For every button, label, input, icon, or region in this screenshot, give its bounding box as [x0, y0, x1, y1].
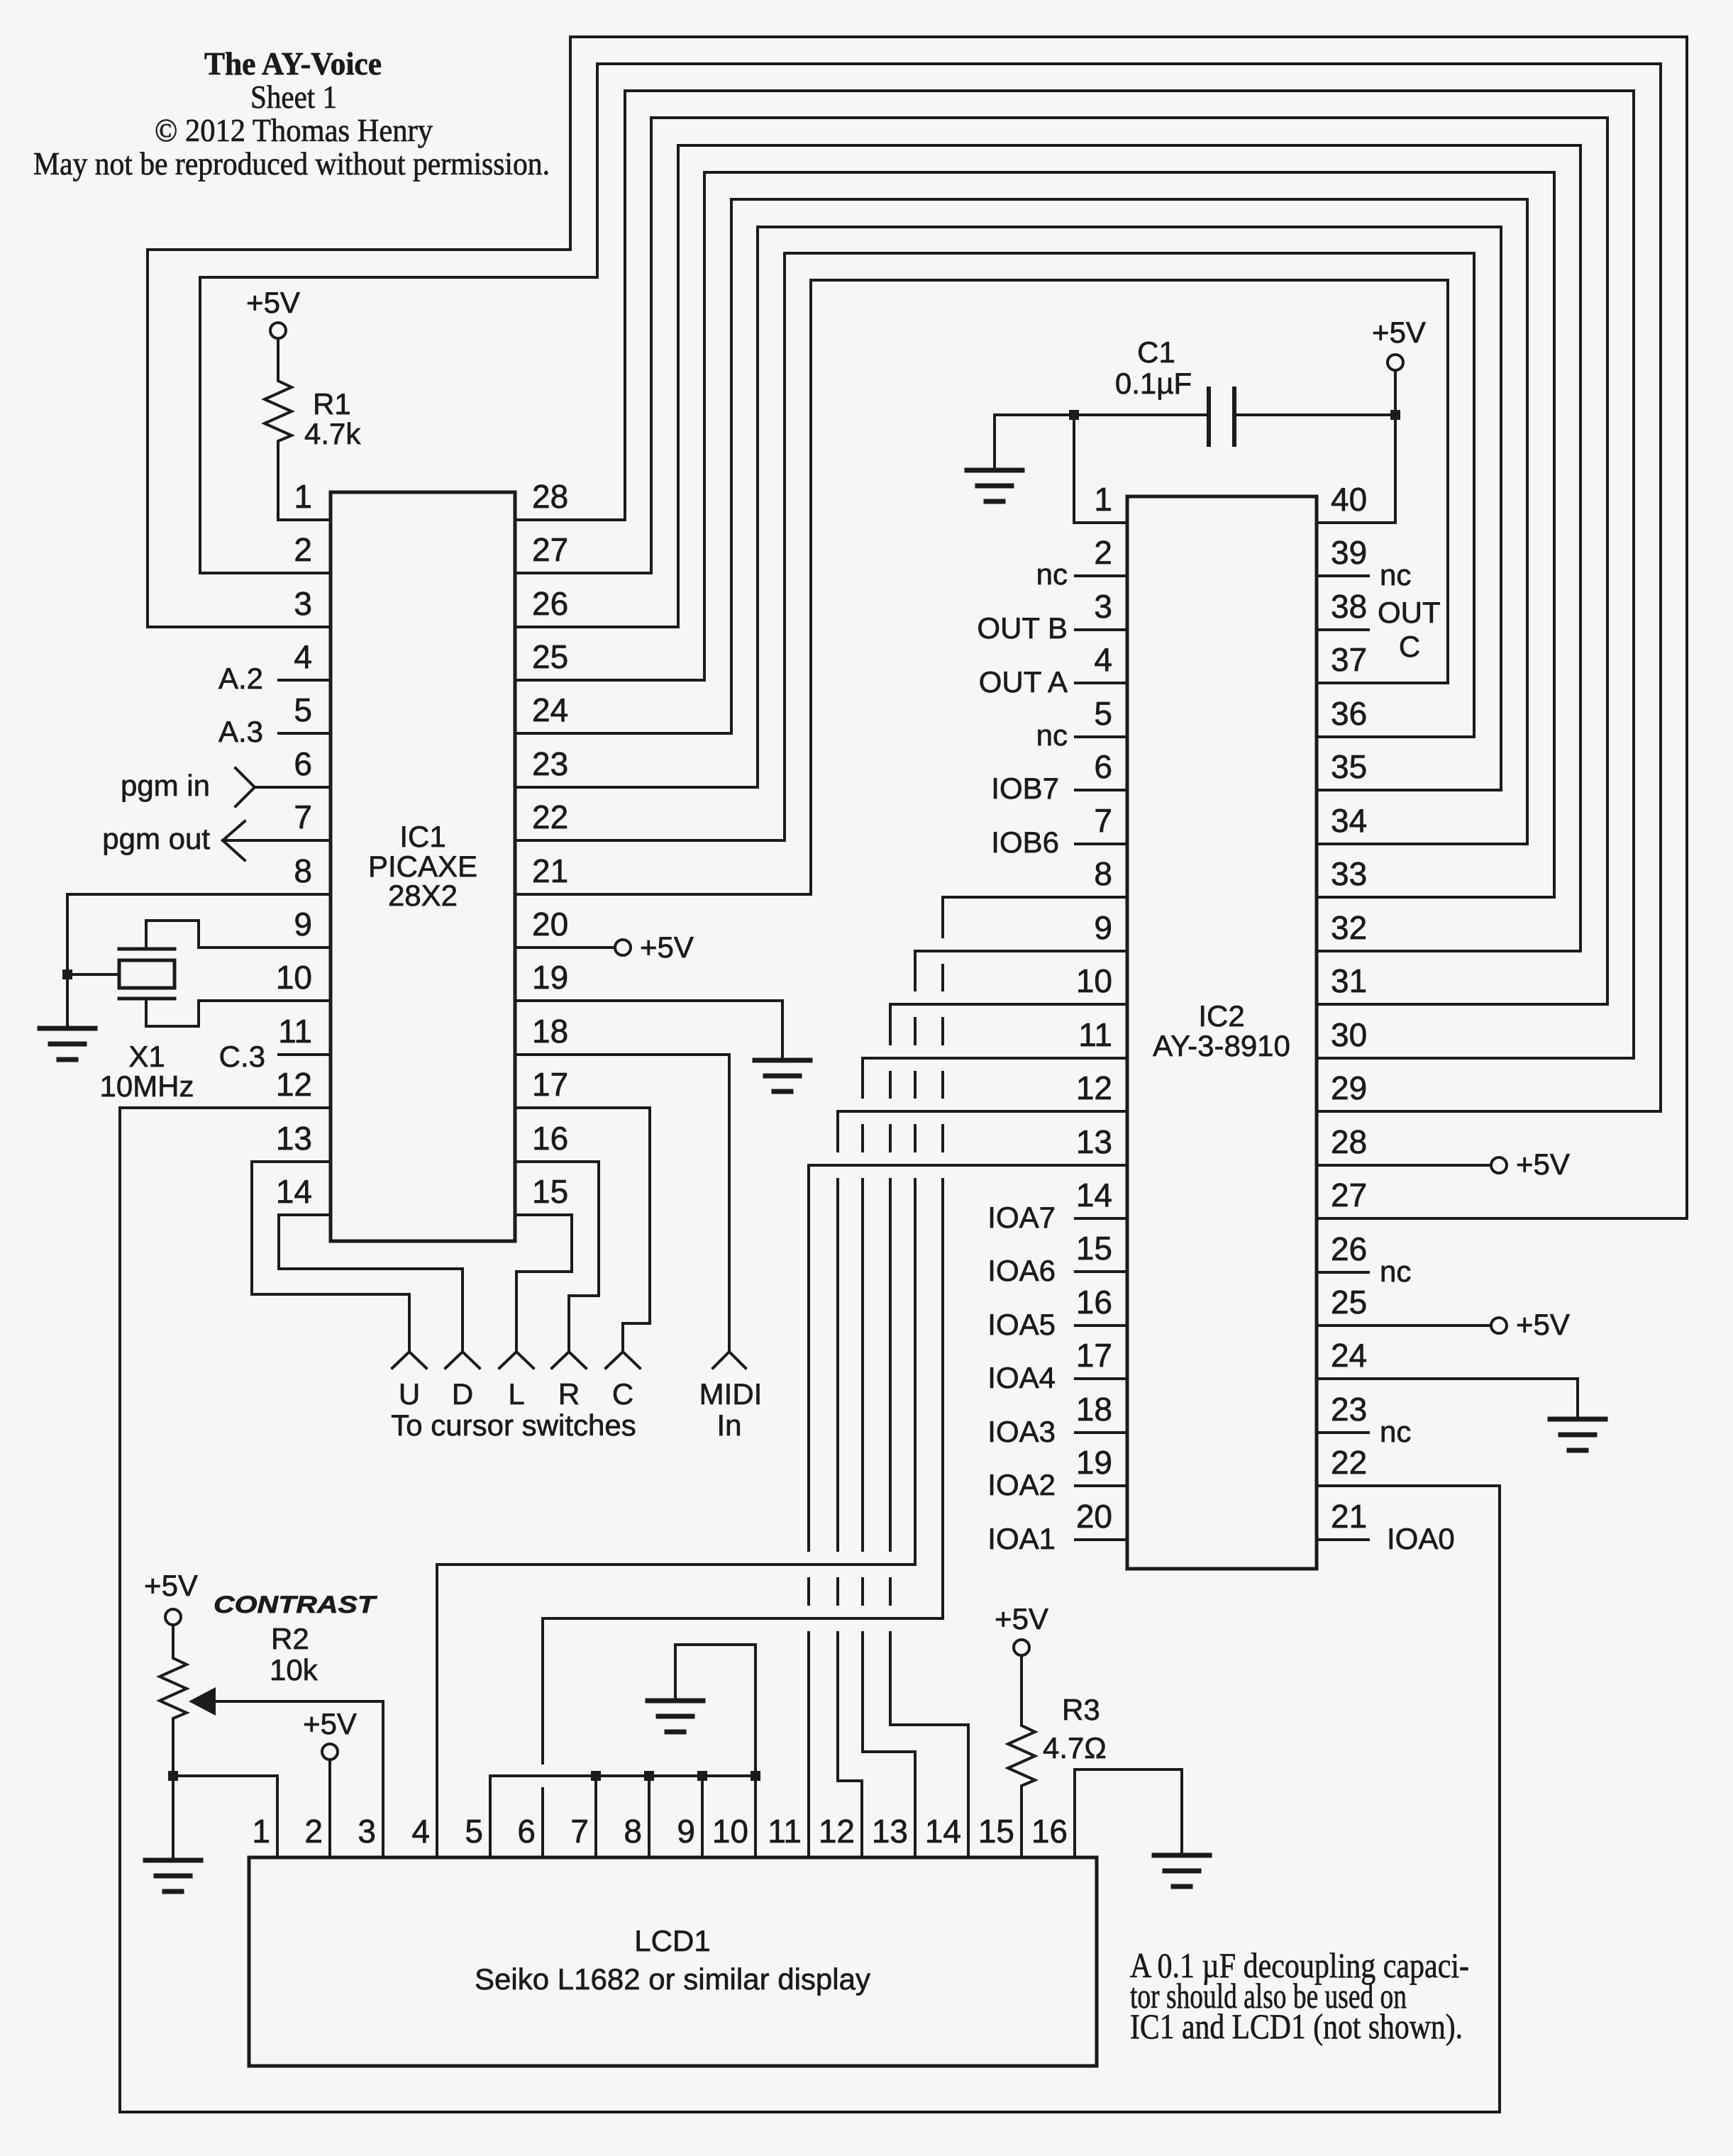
wire bus IC1 pin28 to IC2 pin30	[515, 91, 1634, 1058]
svg-text:8: 8	[624, 1813, 642, 1850]
svg-text:10MHz: 10MHz	[99, 1069, 194, 1103]
svg-text:11: 11	[278, 1013, 312, 1050]
resistor R3 4.7ohm	[1014, 1640, 1029, 1655]
junction R2 bottom node	[168, 1771, 178, 1781]
svg-text:25: 25	[1331, 1284, 1367, 1321]
svg-text:28X2: 28X2	[388, 879, 458, 912]
wire bus IC1 pin3 to IC2 pin27	[148, 37, 1687, 1218]
wire X1 top plate to IC1 pin9	[146, 921, 331, 949]
svg-text:A.2: A.2	[218, 662, 263, 695]
svg-text:A.3: A.3	[218, 715, 263, 748]
svg-text:2: 2	[294, 531, 312, 568]
svg-text:OUT B: OUT B	[977, 611, 1068, 645]
IC2 pin15 stub IOA6	[1075, 1270, 1127, 1273]
IC2 pin7 stub IOB6	[1075, 843, 1127, 845]
wire R2 node to LCD pin1	[173, 1776, 277, 1857]
svg-text:40: 40	[1331, 481, 1367, 518]
IC2 pin6 stub IOB7	[1075, 789, 1127, 791]
svg-text:31: 31	[1331, 962, 1367, 999]
svg-text:7: 7	[570, 1813, 589, 1850]
wire bus IC1 pin27 to IC2 pin31	[515, 118, 1607, 1004]
ground above LCD	[648, 1701, 703, 1732]
svg-text:R2: R2	[271, 1622, 309, 1655]
LCD pins 5-10 ground rail	[490, 1774, 755, 1777]
wire IC2 pin10 to LCD pin14	[890, 1004, 1127, 1044]
svg-text:27: 27	[1331, 1177, 1367, 1213]
junction C1 right node	[1390, 410, 1400, 420]
svg-text:3: 3	[294, 585, 312, 622]
IC2 pin5 stub nc	[1075, 735, 1127, 738]
svg-text:R3: R3	[1062, 1693, 1100, 1726]
wire bus IC1 pin22 to IC2 pin36	[515, 253, 1474, 840]
svg-text:35: 35	[1331, 748, 1367, 785]
IC2 pin4 stub OUT A	[1075, 682, 1127, 684]
wire IC1 pin19 to ground	[515, 1001, 782, 1058]
svg-text:R: R	[558, 1377, 580, 1411]
svg-text:1: 1	[1094, 481, 1112, 518]
IC2 pin20 stub IOA1	[1075, 1538, 1127, 1541]
svg-text:4: 4	[411, 1813, 430, 1850]
wire bus IC1 pin24 to IC2 pin34	[515, 199, 1527, 844]
svg-text:0.1µF: 0.1µF	[1115, 367, 1192, 400]
IC1 pin4 stub A.2	[279, 679, 331, 682]
IC2 pin18 stub IOA3	[1075, 1431, 1127, 1434]
svg-text:24: 24	[1331, 1337, 1367, 1374]
IC2 pin26 stub nc	[1317, 1271, 1368, 1274]
svg-text:10: 10	[712, 1813, 748, 1850]
wire rail to ground	[675, 1645, 755, 1776]
wire X1 bottom plate to IC1 pin10	[146, 999, 331, 1026]
svg-text:16: 16	[532, 1120, 568, 1157]
svg-text:34: 34	[1331, 802, 1367, 839]
ground at IC1 pin8	[40, 1028, 95, 1060]
svg-text:+5V: +5V	[303, 1707, 357, 1740]
svg-text:22: 22	[1331, 1444, 1367, 1481]
R2 wiper arrow	[189, 1687, 216, 1716]
svg-text:32: 32	[1331, 909, 1367, 946]
svg-text:+5V: +5V	[144, 1569, 198, 1602]
svg-text:nc: nc	[1380, 558, 1411, 591]
svg-text:11: 11	[768, 1813, 802, 1850]
connector arrow C	[606, 1352, 640, 1368]
svg-text:16: 16	[1076, 1284, 1112, 1321]
svg-text:36: 36	[1331, 695, 1367, 732]
svg-text:6: 6	[517, 1813, 536, 1850]
IC2 pin2 stub nc	[1075, 574, 1127, 577]
svg-text:+5V: +5V	[995, 1602, 1048, 1635]
svg-text:9: 9	[677, 1813, 695, 1850]
svg-text:C.3: C.3	[219, 1040, 265, 1073]
wire IC1 pin16 to cursor R	[515, 1162, 599, 1352]
svg-text:+5V: +5V	[1372, 316, 1426, 349]
IC2 pin24 wire to ground	[1317, 1379, 1578, 1417]
svg-text:28: 28	[1331, 1123, 1367, 1160]
wire +5V to IC2 pin40	[1317, 370, 1395, 523]
wire IC2 pin8 to LCD pin6	[943, 897, 1127, 937]
svg-text:Sheet 1: Sheet 1	[250, 79, 337, 115]
svg-text:R1: R1	[313, 387, 351, 421]
svg-text:IOA3: IOA3	[987, 1415, 1056, 1448]
svg-text:D: D	[452, 1377, 473, 1411]
svg-text:In: In	[716, 1408, 741, 1442]
svg-text:L: L	[508, 1377, 524, 1411]
svg-text:37: 37	[1331, 641, 1367, 678]
svg-text:pgm in: pgm in	[121, 769, 210, 802]
svg-text:8: 8	[1094, 855, 1112, 892]
wire bus IC1 pin25 to IC2 pin33	[515, 172, 1554, 897]
svg-text:IOA6: IOA6	[987, 1254, 1056, 1287]
svg-text:C1: C1	[1137, 335, 1175, 369]
svg-text:18: 18	[1076, 1391, 1112, 1428]
svg-text:nc: nc	[1380, 1415, 1411, 1448]
svg-text:1: 1	[294, 478, 312, 515]
junction X1 left node	[62, 969, 72, 979]
svg-text:IOA1: IOA1	[987, 1522, 1056, 1555]
junction dots on rail pins 7-10	[591, 1771, 601, 1781]
svg-text:nc: nc	[1036, 718, 1068, 752]
connector arrow MIDI In	[713, 1352, 746, 1368]
IC1 pin6 stub pgm in arrow	[236, 768, 255, 806]
wire IC1 pin13 to cursor U	[252, 1162, 409, 1352]
svg-text:nc: nc	[1380, 1255, 1411, 1288]
svg-text:MIDI: MIDI	[699, 1377, 763, 1411]
svg-text:14: 14	[1076, 1177, 1112, 1213]
wire IC1 pin15 to cursor L	[515, 1215, 572, 1352]
wire C1 left node to IC2 pin1	[1074, 415, 1127, 523]
ground at IC1 pin19	[755, 1060, 810, 1091]
IC1 U1 PICAXE 28X2 box	[331, 492, 515, 1241]
svg-text:10: 10	[276, 959, 312, 996]
svg-text:5: 5	[1094, 695, 1112, 732]
resistor R1 4.7k	[270, 323, 286, 338]
svg-text:12: 12	[819, 1813, 855, 1850]
svg-text:21: 21	[1331, 1498, 1367, 1535]
svg-text:© 2012 Thomas Henry: © 2012 Thomas Henry	[155, 113, 433, 148]
svg-text:IC1 and LCD1 (not shown).: IC1 and LCD1 (not shown).	[1130, 2006, 1463, 2046]
svg-text:16: 16	[1031, 1813, 1068, 1850]
+5V at LCD pin2	[322, 1744, 338, 1760]
wire IC1 pin18 to MIDI In	[515, 1055, 729, 1352]
svg-text:14: 14	[925, 1813, 961, 1850]
svg-text:2: 2	[1094, 534, 1112, 571]
svg-text:28: 28	[532, 478, 568, 515]
wire IC2 pin9 to LCD pin4	[915, 951, 1127, 990]
svg-text:20: 20	[1076, 1498, 1112, 1535]
ground at C1	[993, 415, 996, 468]
svg-text:18: 18	[532, 1013, 568, 1050]
svg-text:13: 13	[276, 1120, 312, 1157]
svg-text:30: 30	[1331, 1016, 1367, 1053]
svg-text:38: 38	[1331, 588, 1367, 625]
svg-text:15: 15	[1076, 1230, 1112, 1267]
svg-text:+5V: +5V	[1516, 1148, 1570, 1181]
svg-text:4.7k: 4.7k	[304, 417, 361, 450]
svg-text:9: 9	[294, 906, 312, 943]
svg-text:11: 11	[1078, 1016, 1112, 1053]
LCD1 box	[249, 1857, 1097, 2066]
ground at R2	[145, 1860, 201, 1891]
wire IC2 pin12 to LCD pin12	[838, 1111, 1127, 1151]
svg-text:8: 8	[294, 852, 312, 889]
IC2 pin38 stub OUT C	[1317, 628, 1368, 631]
svg-text:U: U	[399, 1377, 420, 1411]
svg-text:33: 33	[1331, 855, 1367, 892]
connector arrow U	[392, 1352, 426, 1368]
svg-text:7: 7	[1094, 802, 1112, 839]
svg-text:AY-3-8910: AY-3-8910	[1153, 1029, 1290, 1062]
IC1 pin20 wire to +5V	[515, 946, 614, 949]
svg-text:39: 39	[1331, 534, 1367, 571]
svg-text:20: 20	[532, 906, 568, 943]
wire IC1 pin12 to IC2 pin22 (around page bottom)	[120, 1108, 1500, 2112]
junction C1 left node	[1069, 410, 1079, 420]
connector arrow L	[499, 1352, 533, 1368]
svg-text:IOA7: IOA7	[987, 1201, 1056, 1234]
svg-text:CONTRAST: CONTRAST	[214, 1591, 378, 1618]
svg-text:12: 12	[276, 1066, 312, 1103]
ground at LCD pin16	[1154, 1855, 1209, 1886]
svg-text:C: C	[1399, 630, 1420, 663]
svg-text:12: 12	[1076, 1069, 1112, 1106]
capacitor C1 0.1uF	[995, 413, 1209, 416]
svg-text:9: 9	[1094, 909, 1112, 946]
svg-text:19: 19	[1076, 1444, 1112, 1481]
svg-text:17: 17	[532, 1066, 568, 1103]
wire IC1 pin17 to cursor C	[515, 1108, 650, 1352]
potentiometer R2 10k CONTRAST	[165, 1609, 181, 1625]
svg-text:nc: nc	[1036, 557, 1068, 591]
svg-text:2: 2	[304, 1813, 323, 1850]
svg-text:To cursor switches: To cursor switches	[391, 1408, 636, 1442]
svg-text:C: C	[612, 1377, 633, 1411]
+5V at C1 right node	[1388, 355, 1403, 370]
svg-text:IC1: IC1	[399, 820, 445, 853]
svg-text:22: 22	[532, 799, 568, 835]
wire bus IC1 pin26 to IC2 pin32	[515, 145, 1580, 951]
svg-text:7: 7	[294, 799, 312, 835]
svg-text:IOA5: IOA5	[987, 1308, 1056, 1341]
IC2 pin3 stub OUT B	[1075, 628, 1127, 631]
svg-text:4: 4	[1094, 641, 1112, 678]
wire IC1 pin14 to cursor D	[279, 1215, 463, 1352]
IC2 pin39 stub nc	[1317, 574, 1368, 577]
svg-text:IOA2: IOA2	[987, 1468, 1056, 1501]
svg-text:3: 3	[1094, 588, 1112, 625]
IC2 pin23 stub nc	[1317, 1431, 1368, 1434]
svg-text:4.7Ω: 4.7Ω	[1043, 1731, 1107, 1765]
wire bus IC1 pin2 to IC2 pin29	[200, 64, 1661, 1111]
svg-text:25: 25	[532, 638, 568, 675]
connector arrow D	[445, 1352, 480, 1368]
IC1 pin11 stub C.3	[279, 1053, 331, 1056]
IC1 pin5 stub A.3	[279, 732, 331, 735]
svg-text:IOB7: IOB7	[991, 772, 1059, 805]
svg-text:PICAXE: PICAXE	[368, 850, 477, 883]
svg-text:LCD1: LCD1	[634, 1924, 710, 1957]
svg-text:29: 29	[1331, 1069, 1367, 1106]
IC2 pin28 wire to +5V	[1317, 1164, 1490, 1167]
svg-text:26: 26	[1331, 1230, 1367, 1267]
IC1 pin8 wire to ground	[67, 894, 331, 1026]
svg-text:5: 5	[294, 691, 312, 728]
svg-text:4: 4	[294, 638, 312, 675]
svg-text:6: 6	[1094, 748, 1112, 785]
svg-text:+5V: +5V	[1516, 1308, 1570, 1341]
wire bus IC1 pin23 to IC2 pin35	[515, 227, 1501, 790]
wire IC2 pin13 to LCD pin11	[809, 1165, 1127, 1550]
svg-text:IOA0: IOA0	[1387, 1522, 1455, 1555]
svg-text:5: 5	[465, 1813, 483, 1850]
IC1 pin7 stub pgm out arrow	[223, 821, 245, 860]
svg-text:10k: 10k	[270, 1653, 319, 1687]
svg-text:27: 27	[532, 531, 568, 568]
svg-text:10: 10	[1076, 962, 1112, 999]
svg-text:19: 19	[532, 959, 568, 996]
IC2 pin17 stub IOA4	[1075, 1377, 1127, 1380]
svg-text:IOA4: IOA4	[987, 1361, 1056, 1394]
connector arrow R	[552, 1352, 586, 1368]
IC2 pin25 wire to +5V	[1317, 1324, 1490, 1327]
svg-text:IOB6: IOB6	[991, 826, 1059, 859]
svg-text:The AY-Voice: The AY-Voice	[204, 45, 382, 82]
svg-text:17: 17	[1076, 1337, 1112, 1374]
svg-text:24: 24	[532, 691, 568, 728]
svg-text:14: 14	[276, 1173, 312, 1210]
svg-text:13: 13	[872, 1813, 908, 1850]
IC2 pin14 stub IOA7	[1075, 1217, 1127, 1220]
svg-text:+5V: +5V	[246, 286, 300, 319]
IC2 pin21 stub IOA0	[1317, 1538, 1368, 1541]
svg-text:13: 13	[1076, 1123, 1112, 1160]
svg-text:15: 15	[978, 1813, 1014, 1850]
svg-text:IC2: IC2	[1198, 999, 1244, 1033]
wire bus IC1 pin21 to IC2 pin37	[515, 280, 1448, 894]
svg-text:pgm out: pgm out	[102, 822, 210, 855]
svg-text:X1: X1	[128, 1040, 165, 1073]
svg-text:26: 26	[532, 585, 568, 622]
svg-text:23: 23	[1331, 1391, 1367, 1428]
IC2 pin19 stub IOA2	[1075, 1484, 1127, 1487]
svg-text:21: 21	[532, 852, 568, 889]
crystal X1 10MHz	[67, 973, 119, 976]
svg-text:1: 1	[252, 1813, 270, 1850]
svg-text:OUT A: OUT A	[979, 665, 1068, 699]
svg-text:6: 6	[294, 745, 312, 782]
svg-text:Seiko L1682 or similar display: Seiko L1682 or similar display	[475, 1962, 870, 1996]
svg-text:23: 23	[532, 745, 568, 782]
svg-text:+5V: +5V	[640, 930, 694, 964]
svg-text:May not be reproduced without: May not be reproduced without permission…	[33, 146, 550, 182]
svg-text:3: 3	[358, 1813, 376, 1850]
svg-text:15: 15	[532, 1173, 568, 1210]
LCD pin16 wire to ground	[1075, 1769, 1182, 1857]
IC2 U2 AY-3-8910 box	[1127, 496, 1317, 1569]
wire IC2 pin11 to LCD pin13	[863, 1058, 1127, 1097]
svg-text:OUT: OUT	[1378, 596, 1441, 629]
IC2 pin16 stub IOA5	[1075, 1324, 1127, 1327]
